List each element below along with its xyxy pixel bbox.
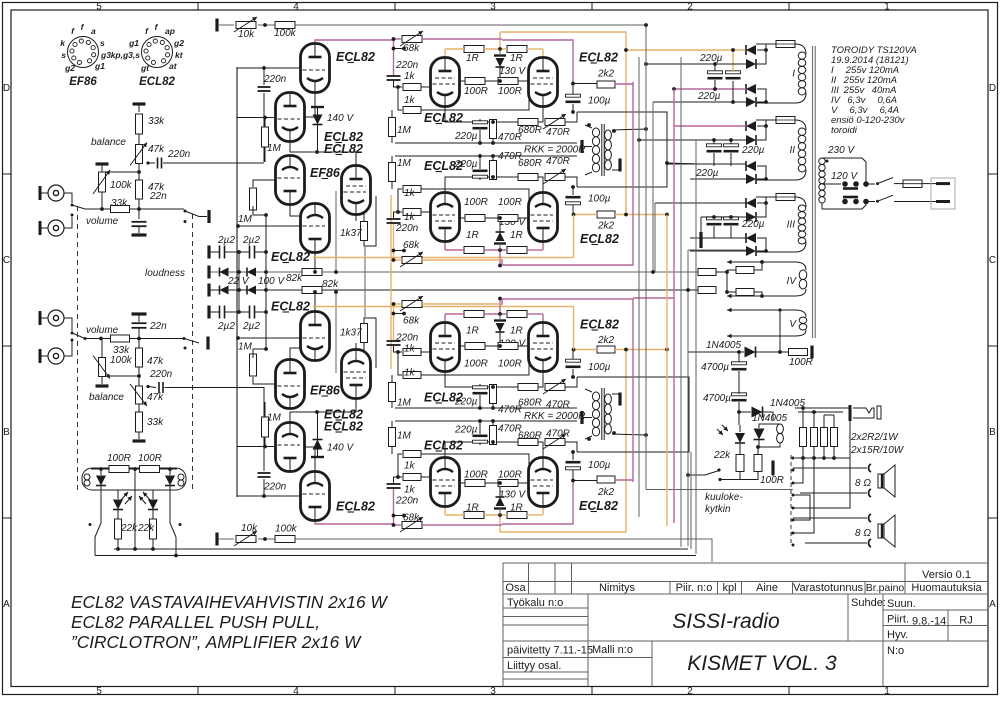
svg-text:1M: 1M xyxy=(267,413,282,424)
resistor 47k xyxy=(136,180,143,199)
wire 2k2 (R) xyxy=(573,480,597,482)
wire xyxy=(739,472,741,480)
wire 68k feed (R) xyxy=(394,303,403,305)
wire cap down (R) xyxy=(263,402,265,471)
rectifier diode (III) xyxy=(746,246,756,256)
wire 2k2 (L) xyxy=(573,83,597,85)
wire 2k2 (orange) (L) xyxy=(574,214,598,216)
wire grid (R) xyxy=(421,476,430,478)
resistor 680R (R) xyxy=(518,439,538,446)
wire xyxy=(101,164,103,172)
wire (L) xyxy=(394,212,403,218)
wire 82k row xyxy=(256,289,302,291)
wire xyxy=(713,226,715,238)
selector jumper xyxy=(842,199,848,205)
wire grid row (R) xyxy=(237,446,276,448)
wire V3 grid (R) xyxy=(238,337,302,339)
svg-text:1M: 1M xyxy=(267,143,282,154)
wire bottom xyxy=(114,548,688,550)
resistor 100R (R) xyxy=(498,480,518,487)
svg-text:RJ: RJ xyxy=(959,615,972,627)
wire xyxy=(100,469,102,475)
svg-text:10k: 10k xyxy=(241,523,258,534)
wire cap down (L) xyxy=(263,93,265,162)
wire xyxy=(802,447,804,459)
rectifier diode (I) xyxy=(746,84,756,94)
svg-text:Suhde:: Suhde: xyxy=(851,597,886,609)
volume pot 100k xyxy=(99,358,106,377)
wire xyxy=(793,467,867,469)
svg-text:1k: 1k xyxy=(404,71,416,82)
svg-text:ECL82: ECL82 xyxy=(324,420,363,434)
wire 2k2 down (orange) (R) xyxy=(573,307,575,350)
terminal xyxy=(207,284,210,297)
svg-text:2: 2 xyxy=(687,2,693,13)
wire xyxy=(64,318,72,331)
wire xyxy=(225,311,250,313)
wire bus orange xyxy=(390,195,392,369)
wire xyxy=(229,289,248,291)
resistor 22k xyxy=(115,519,122,539)
wire xyxy=(654,203,656,272)
winding II coil xyxy=(798,128,806,135)
wire cathode row (R) xyxy=(538,442,543,458)
wire (L) xyxy=(485,80,498,82)
primary coil xyxy=(819,158,825,164)
resistor 1k37 (L) xyxy=(361,222,368,241)
wire (L) xyxy=(391,182,393,189)
wire 82k row xyxy=(322,289,698,291)
fuse (II) xyxy=(776,117,795,124)
svg-text:100R: 100R xyxy=(789,357,813,368)
diode xyxy=(220,268,229,277)
svg-text:kuuloke-: kuuloke- xyxy=(705,492,743,503)
supply terminal xyxy=(133,102,146,105)
resistor 82k xyxy=(302,269,322,276)
resistor 2k2 (L) xyxy=(597,211,615,218)
rectifier diode (II) xyxy=(746,121,756,131)
svg-text:1: 1 xyxy=(884,686,890,697)
speaker 8ohm L xyxy=(878,474,884,488)
winding V coil xyxy=(799,317,807,323)
transformer winding I box xyxy=(756,44,806,54)
wire orange top (L) xyxy=(500,32,626,215)
ground terminal (R) xyxy=(215,533,218,546)
wire supply rail (R) xyxy=(295,538,646,540)
wire (R) xyxy=(398,454,402,477)
wire xyxy=(646,63,746,65)
svg-text:470R: 470R xyxy=(546,156,570,167)
fuse (III) xyxy=(776,194,795,201)
wire bottom xyxy=(95,555,696,557)
wire 220n xyxy=(163,162,264,164)
resistor 33k xyxy=(111,206,130,213)
wire xyxy=(655,202,746,204)
svg-text:100R: 100R xyxy=(464,197,488,208)
svg-text:220µ: 220µ xyxy=(454,425,478,436)
wire grid (R) xyxy=(237,495,300,497)
svg-text:1R: 1R xyxy=(510,503,523,514)
wire (R) xyxy=(264,437,266,446)
volume pot 100k xyxy=(99,172,106,192)
wire xyxy=(738,352,740,362)
triode V1a ECL82 (R) xyxy=(301,472,330,521)
ground xyxy=(96,384,109,387)
resistor 100R xyxy=(140,466,160,473)
svg-text:SISSI-radio: SISSI-radio xyxy=(672,610,780,633)
svg-text:D: D xyxy=(989,83,996,94)
capacitor 220µ (L) xyxy=(473,175,488,178)
svg-text:ECL82 PARALLEL PUSH PULL,: ECL82 PARALLEL PUSH PULL, xyxy=(71,612,320,632)
resistor 1M (L) xyxy=(250,188,257,210)
trimmer 68k (R) xyxy=(402,522,422,529)
transformer winding III box xyxy=(756,197,806,207)
zener bar (L) xyxy=(494,54,506,56)
wire (L) xyxy=(479,130,481,143)
wire xyxy=(759,424,780,428)
wire (L) xyxy=(391,137,393,143)
svg-text:C: C xyxy=(3,255,10,266)
wire xyxy=(138,328,140,348)
terminal (L) xyxy=(618,159,621,172)
pentode EF86 (L) xyxy=(342,166,371,215)
wire (L) xyxy=(391,156,393,162)
wire xyxy=(714,80,716,89)
wire xyxy=(713,217,715,218)
svg-text:ECL82 VASTAVAIHEVAHVISTIN 2x16: ECL82 VASTAVAIHEVAHVISTIN 2x16 W xyxy=(71,592,388,612)
wire 68k feed (R) xyxy=(422,524,502,526)
tube socket ECL82 xyxy=(142,37,173,68)
capacitor 220µ (R) xyxy=(473,440,488,443)
svg-text:100k: 100k xyxy=(110,180,133,191)
wire rail (L) xyxy=(219,24,234,26)
wire xfmr (L) xyxy=(612,129,646,130)
svg-text:1R: 1R xyxy=(510,326,523,337)
wire xyxy=(138,163,140,180)
connector xyxy=(869,539,871,547)
wire riser (R) xyxy=(393,304,395,341)
svg-text:2: 2 xyxy=(687,686,693,697)
bus wire (magenta link) xyxy=(633,297,674,299)
capacitor 220µ (L) xyxy=(473,121,488,124)
svg-text:ECL82: ECL82 xyxy=(580,232,619,246)
resistor 33k xyxy=(111,335,130,342)
svg-text:1: 1 xyxy=(884,2,890,13)
wire xyxy=(138,104,140,112)
svg-text:100µ: 100µ xyxy=(588,460,611,471)
wire xfmr (L) xyxy=(584,146,592,148)
svg-text:volume: volume xyxy=(86,325,119,336)
svg-text:kt: kt xyxy=(175,50,184,60)
wire grid row (L) xyxy=(237,117,276,119)
capacitor 22n xyxy=(132,322,147,324)
wire orange top (R) xyxy=(500,350,626,533)
svg-text:g1: g1 xyxy=(94,61,105,71)
bus wire xyxy=(680,57,682,547)
winding IV box xyxy=(760,262,806,296)
svg-text:2k2: 2k2 xyxy=(597,69,615,80)
svg-text:47k: 47k xyxy=(147,356,164,367)
svg-text:volume: volume xyxy=(86,216,119,227)
fuse xyxy=(903,180,922,188)
bus wire (orange) xyxy=(666,215,668,527)
wire rail (R) xyxy=(219,538,234,540)
resistor 680R (L) xyxy=(518,119,538,126)
svg-text:100µ: 100µ xyxy=(588,362,611,373)
wire (R) xyxy=(485,482,498,484)
power tube ECL82 right (R) xyxy=(529,458,558,507)
bus wire (magenta) xyxy=(673,89,675,523)
wire xyxy=(732,81,734,102)
wire bus xyxy=(795,457,850,459)
wire wiper xyxy=(148,387,156,388)
resistor 1k (R) xyxy=(403,349,421,356)
resistor 100R xyxy=(754,455,762,472)
svg-text:ECL82: ECL82 xyxy=(424,111,463,125)
wire xyxy=(795,407,850,409)
headphone switch xyxy=(688,474,705,476)
wire xyxy=(85,208,110,210)
resistor 22k xyxy=(736,455,744,472)
wire xyxy=(138,367,140,386)
terminal xyxy=(207,246,210,259)
wire xyxy=(805,542,867,544)
svg-text:470R: 470R xyxy=(546,127,570,138)
capacitor 2µ2 xyxy=(249,246,251,259)
wire stage rail (R) xyxy=(395,420,577,422)
wire plate row (L) xyxy=(542,243,544,251)
svg-text:ECL82: ECL82 xyxy=(336,50,375,64)
pentode EF86 (R) xyxy=(342,350,371,399)
resistor humdinger xyxy=(736,267,754,274)
bus wire xyxy=(690,452,692,549)
svg-text:ECL82: ECL82 xyxy=(271,300,310,314)
svg-text:1M: 1M xyxy=(397,398,412,409)
winding I coil xyxy=(798,52,806,59)
wire riser (L) xyxy=(393,223,395,260)
zener bar (R) xyxy=(494,507,506,509)
wire (L) xyxy=(445,249,464,251)
svg-text:III: III xyxy=(787,220,796,231)
svg-text:2µ2: 2µ2 xyxy=(242,235,260,246)
wire grid2 (L) xyxy=(421,86,529,110)
svg-text:ECL82: ECL82 xyxy=(580,318,619,332)
svg-text:”CIRCLOTRON”, AMPLIFIER 2x16 W: ”CIRCLOTRON”, AMPLIFIER 2x16 W xyxy=(71,632,362,652)
terminal xyxy=(96,162,109,165)
light arrows xyxy=(722,425,728,431)
svg-text:470R: 470R xyxy=(498,132,522,143)
svg-text:Piirt.: Piirt. xyxy=(887,614,909,626)
wire xyxy=(739,444,741,454)
wire supply riser (magenta) (R) xyxy=(499,299,501,315)
wire xyxy=(813,412,815,427)
svg-text:220µ: 220µ xyxy=(697,91,721,102)
wire xyxy=(91,468,109,470)
wire bridge xyxy=(757,126,766,140)
balance pot 47k xyxy=(136,386,143,404)
resistor 1M (L) xyxy=(389,118,396,137)
svg-text:ECL82: ECL82 xyxy=(424,159,463,173)
svg-text:220µ: 220µ xyxy=(741,145,765,156)
wire grid cap (R) xyxy=(263,479,265,496)
svg-text:B: B xyxy=(3,427,10,438)
wire stage rail (L) xyxy=(395,155,577,157)
svg-text:220µ: 220µ xyxy=(695,168,719,179)
svg-text:1R: 1R xyxy=(466,53,479,64)
diode xyxy=(754,429,765,440)
svg-text:KISMET VOL. 3: KISMET VOL. 3 xyxy=(687,652,837,675)
wire xfmr (L) xyxy=(585,125,592,128)
svg-text:2x2R2/1W: 2x2R2/1W xyxy=(850,432,899,443)
svg-text:220n: 220n xyxy=(149,369,173,380)
wire xyxy=(793,458,814,533)
svg-text:kpl: kpl xyxy=(722,582,736,594)
resistor 100R (L) xyxy=(465,78,485,85)
RCA jack input L1 xyxy=(48,185,64,201)
wire bridge xyxy=(757,238,766,251)
wire xyxy=(210,271,220,273)
diode xyxy=(220,286,229,295)
svg-text:Liittyy osal.: Liittyy osal. xyxy=(507,660,561,672)
svg-text:RKK = 2000R: RKK = 2000R xyxy=(524,411,585,422)
zener 130V (L) xyxy=(496,232,505,241)
power tube ECL82 left (L) xyxy=(431,58,460,107)
wire cathode loop (L) xyxy=(577,112,667,187)
wire switch xyxy=(72,333,85,339)
wire (L) xyxy=(460,80,466,82)
wire xyxy=(64,217,72,228)
wire zener (L) xyxy=(499,244,501,251)
wire xyxy=(894,201,938,203)
resistor net 3 xyxy=(821,428,828,447)
wire bridge xyxy=(757,166,766,179)
wire (R) xyxy=(492,404,494,408)
wire (orange) (R) xyxy=(313,306,574,308)
wire (R) xyxy=(398,352,402,375)
svg-text:g3: g3 xyxy=(100,50,111,60)
resistor 2k2 (L) xyxy=(597,81,615,88)
wire (R) xyxy=(572,369,574,377)
wire (R) xyxy=(479,442,481,445)
wire ladder xyxy=(265,215,267,349)
svg-text:päivitetty 7.11.-15: päivitetty 7.11.-15 xyxy=(507,645,593,657)
wire zener (R) xyxy=(317,412,319,439)
trimmer 68k (L) xyxy=(402,36,422,43)
wire plate (L) xyxy=(317,152,356,166)
wire plate row (L) xyxy=(542,49,544,57)
wire xyxy=(894,183,903,185)
wire supply riser (magenta) (L) xyxy=(499,250,501,266)
svg-text:100k: 100k xyxy=(275,524,298,535)
svg-text:balance: balance xyxy=(89,392,124,403)
wire (orange) (L) xyxy=(313,257,574,259)
wire xyxy=(754,292,762,296)
svg-text:A: A xyxy=(989,599,996,610)
wire (L) xyxy=(290,141,317,152)
svg-text:Suun.: Suun. xyxy=(887,598,916,610)
wire wiper (L) xyxy=(394,48,405,50)
ground terminal (L) xyxy=(215,19,218,32)
wire center xyxy=(134,469,136,549)
wire 68k feed (R) xyxy=(422,303,502,305)
wire xyxy=(824,414,834,416)
wire xyxy=(866,201,875,203)
svg-text:100R: 100R xyxy=(464,359,488,370)
svg-text:g1: g1 xyxy=(128,38,139,48)
resistor humdinger xyxy=(698,269,716,276)
wire plate row (R) xyxy=(542,508,544,516)
wire supply riser (orange) (R) xyxy=(499,515,501,532)
wire cathode loop (R) xyxy=(577,377,689,452)
wire wiper (R) xyxy=(394,515,405,517)
resistor net 4 xyxy=(831,428,838,447)
wire grid2 (R) xyxy=(253,377,276,384)
trimmer 68k (R) xyxy=(402,301,422,308)
svg-text:33k: 33k xyxy=(148,116,165,127)
wire xyxy=(823,447,825,459)
transformer winding II box xyxy=(756,120,806,130)
wire link (magenta) (R) xyxy=(501,299,503,305)
wire xyxy=(100,486,102,523)
wire (R) xyxy=(527,313,543,315)
resistor 1R (L) xyxy=(464,247,484,254)
wire 68k feed (L) xyxy=(422,38,502,40)
wire xyxy=(138,314,140,322)
wire xyxy=(169,469,171,475)
wire xfmr (R) xyxy=(584,417,592,419)
svg-text:220n: 220n xyxy=(395,60,419,71)
svg-text:ECL82: ECL82 xyxy=(579,51,618,65)
wire (R) xyxy=(364,318,376,368)
svg-text:100 V: 100 V xyxy=(258,276,285,287)
svg-text:100R: 100R xyxy=(138,453,162,464)
wire (L) xyxy=(484,249,507,251)
wire switch xyxy=(184,339,199,344)
wire xyxy=(727,269,736,271)
wire grid2 (L) xyxy=(421,189,529,213)
svg-text:100R: 100R xyxy=(498,359,522,370)
wire bus xyxy=(236,67,238,497)
wire (R) xyxy=(460,345,466,347)
wire (L) xyxy=(565,112,577,122)
svg-text:1R: 1R xyxy=(466,230,479,241)
resistor 100R (R) xyxy=(465,480,485,487)
winding IV coil xyxy=(799,270,807,280)
wire 2k2 (magenta) (R) xyxy=(615,479,633,481)
resistor 1k (R) xyxy=(403,451,421,458)
wire (L) xyxy=(264,118,266,127)
svg-text:g2: g2 xyxy=(173,38,184,48)
wire (R) xyxy=(572,470,574,482)
zener 140V (R) xyxy=(313,440,323,450)
wire zener (R) xyxy=(499,314,501,321)
resistor 1k (L) xyxy=(403,186,421,193)
connector xyxy=(869,489,871,497)
wire 230V xyxy=(823,158,866,184)
triode V3 ECL82 (inv) (L) xyxy=(301,204,330,253)
ground terminal xyxy=(133,439,146,442)
resistor 1R (L) xyxy=(464,46,484,53)
wire (R) xyxy=(572,452,574,460)
wire (R) xyxy=(518,482,529,484)
wire riser (R) xyxy=(393,488,395,525)
wire bridge xyxy=(765,44,767,50)
wire xyxy=(255,311,267,313)
wire 68k feed (R) xyxy=(394,524,403,526)
wire bridge xyxy=(765,120,767,126)
wire (L) xyxy=(394,81,403,87)
svg-text:22k: 22k xyxy=(713,450,731,461)
